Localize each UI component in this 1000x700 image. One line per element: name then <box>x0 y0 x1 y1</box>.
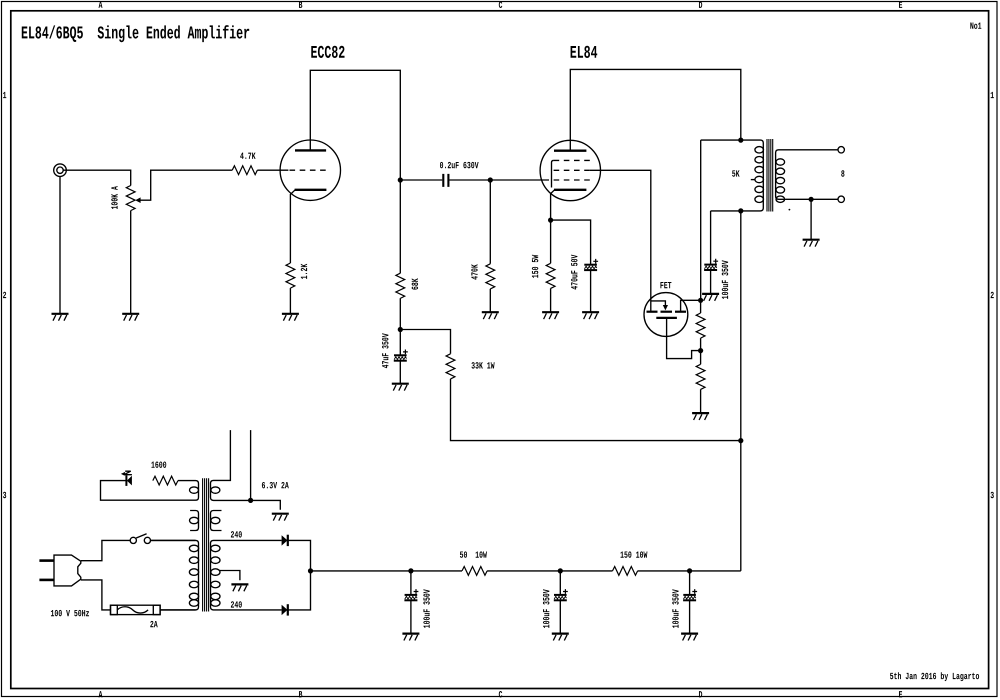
junction node filter cap 3 <box>687 568 692 573</box>
wire node to coupling cap <box>400 179 442 181</box>
junction node B+ and 33K feed <box>738 438 743 443</box>
output terminal bottom <box>838 196 844 202</box>
LED D3 triangle <box>127 476 132 486</box>
label 4.7K <box>240 153 255 159</box>
junction node primary bottom B+ <box>738 208 743 213</box>
mosfet Q1 FET envelope <box>644 293 688 337</box>
wire rail segment 3 <box>638 570 741 572</box>
T1 spare winding left loop <box>190 517 199 523</box>
frame column label B top <box>299 2 302 8</box>
T1 HV loop 2 <box>211 557 220 564</box>
wire rail segment 2 <box>487 570 612 572</box>
ground at C5 <box>402 634 419 641</box>
resistor R7 with wires <box>700 300 702 350</box>
T1 pilot loop <box>190 487 199 493</box>
T1 HV loop 1 <box>211 545 220 552</box>
ground at FET divider <box>692 413 709 420</box>
output transformer T2 primary outline <box>701 140 764 211</box>
T1 HV loop 5 <box>211 593 220 600</box>
T2 primary loop 3 <box>755 166 764 172</box>
rectifier diode D1 bar <box>287 535 289 546</box>
switch S1 contact left <box>130 537 136 543</box>
label 0.2uF 630V <box>440 162 479 168</box>
ground at C4 <box>702 294 719 301</box>
ground at input jack <box>52 314 69 321</box>
junction node FET source <box>698 298 703 303</box>
T2 primary loop 2 <box>755 157 764 163</box>
junction node EL84 grid <box>488 177 493 182</box>
label 68K <box>412 278 418 289</box>
frame column label E bottom <box>899 691 902 697</box>
frame column label D top <box>699 2 702 8</box>
T2 secondary loop 4 <box>776 187 785 193</box>
T1 spare winding right loop <box>211 517 220 523</box>
junction node filter cap 2 <box>558 568 563 573</box>
wire B+ vertical rail <box>740 211 742 571</box>
wire EL84 anode to transformer <box>570 69 741 150</box>
T2 primary phase mark <box>751 179 755 181</box>
wire switch to primary <box>151 539 196 541</box>
wire 4.7K to ECC82 grid <box>257 169 288 171</box>
label 1.2K <box>301 264 307 279</box>
title text <box>22 25 249 42</box>
FET source lead wire <box>681 300 701 311</box>
wire HV center tap <box>219 571 240 581</box>
label 50 10W <box>460 551 487 557</box>
T1 spare winding left outline <box>190 511 198 531</box>
power transformer T1 primary outline <box>150 540 199 610</box>
T1 primary loop 2 <box>189 557 198 564</box>
wire EL84 cathode lead <box>551 190 555 220</box>
label 1600 <box>151 461 166 467</box>
resistor R3 68K with wires <box>399 180 401 330</box>
pentode U2 EL84 envelope <box>540 140 600 200</box>
wire wiper to grid line <box>140 170 232 200</box>
ECC82 cathode bar <box>295 189 327 191</box>
label 100uF 350V at C5 <box>423 589 429 628</box>
ground at 470K <box>482 312 499 319</box>
label 100 V 50Hz <box>51 610 89 616</box>
T1 HV loop 3 <box>211 569 220 576</box>
fuse F1 end cap left <box>111 605 118 614</box>
label 470K <box>471 264 477 279</box>
T2 core lines <box>767 139 773 212</box>
label 100K A <box>111 186 117 209</box>
label 150 5W <box>532 255 538 278</box>
EL84 anode bar <box>554 149 586 151</box>
wire jack sleeve to ground <box>59 177 61 314</box>
T2 secondary loop 3 <box>776 177 785 183</box>
label 100uF 350V at C4 <box>722 260 728 299</box>
junction node rectifier output <box>308 568 313 573</box>
sheet number No1 <box>970 23 981 29</box>
fuse F1 end cap right <box>153 605 160 614</box>
wire 1.2K to ground <box>289 288 291 314</box>
T1 primary loop 5 <box>189 593 198 600</box>
fuse F1 2A body <box>111 605 161 614</box>
label 240 top <box>231 531 242 537</box>
ground at secondary <box>803 240 820 247</box>
ground at C6 <box>552 634 569 641</box>
capacitor C6 100uF 350V with wires <box>559 571 561 634</box>
junction node filter cap 1 <box>408 568 413 573</box>
junction node FET gate divider <box>698 348 703 353</box>
label EL84 <box>571 46 598 58</box>
T1 primary loop 4 <box>189 581 198 588</box>
label 100uF 350V at C7 <box>672 589 678 628</box>
EL84 g2 dashes <box>554 169 591 171</box>
T2 secondary outline <box>776 150 838 200</box>
ground at heater winding <box>272 514 289 521</box>
capacitor C3 470uF 50V with wires <box>551 220 591 312</box>
junction node cathode <box>548 218 553 223</box>
T1 pilot winding outline with LED loop <box>101 481 199 501</box>
T1 primary loop 6 <box>189 600 198 607</box>
label 8 <box>841 170 844 176</box>
wire ECC82 anode to coupling node <box>310 70 400 180</box>
resistor R4 470K with wires <box>489 180 491 312</box>
ground at 47uF <box>392 384 409 391</box>
AC plug prong bottom <box>39 579 54 582</box>
triode U1 ECC82 envelope <box>280 140 340 200</box>
wire heater riser <box>250 430 252 500</box>
wire fuse to primary <box>160 609 195 611</box>
FET gate lead wire <box>667 318 701 359</box>
label 5K <box>732 170 739 176</box>
wire plug to switch <box>81 540 130 560</box>
FET channel contact right <box>675 311 686 313</box>
resistor R2 1.2K <box>286 263 295 288</box>
rectifier diode D1 triangle <box>282 535 288 545</box>
T2 primary loop 4 <box>755 176 764 182</box>
date author text <box>890 672 979 681</box>
label 240 bottom <box>231 601 242 607</box>
resistor R11 150 10W <box>613 567 638 576</box>
label 150 10W <box>621 551 648 557</box>
junction node 68K bottom <box>398 327 403 332</box>
ground at pot <box>122 314 139 321</box>
frame row label 3 left <box>3 492 6 498</box>
switch S1 lever <box>136 534 146 538</box>
wire coupling cap to EL84 grid <box>449 179 549 181</box>
LED D3 emission arrows <box>124 471 132 475</box>
resistor R10 50 10W <box>462 567 487 576</box>
frame column label C bottom <box>499 691 502 697</box>
EL84 g1 dashes <box>554 179 591 181</box>
FET channel contact middle <box>661 311 673 313</box>
label ECC82 <box>311 46 344 58</box>
ECC82 grid dashes <box>290 169 327 171</box>
T1 HV secondary outline <box>211 540 282 610</box>
T2 primary loop 1 <box>755 147 764 153</box>
EL84 g3 dashes <box>554 159 591 161</box>
T2 secondary loop 5 <box>776 196 785 202</box>
wire rail segment 1 <box>311 570 463 572</box>
resistor R1 4.7K <box>232 166 257 175</box>
FET bulk branch wire <box>651 301 666 306</box>
junction node secondary ground <box>809 197 814 202</box>
wire B+ to FET node <box>700 140 702 300</box>
capacitor C5 100uF 350V with wires <box>410 571 412 634</box>
potentiometer VR1 100K A body <box>126 186 135 211</box>
AC plug prong top <box>39 559 54 562</box>
ground at 150 5W <box>542 312 559 319</box>
T2 secondary phase mark <box>789 209 791 211</box>
wire jack tip to pot top <box>63 170 131 185</box>
frame row label 1 right <box>991 92 994 98</box>
T1 HV loop 6 <box>211 600 220 607</box>
frame row label 3 right <box>991 492 994 498</box>
junction node anode RC <box>398 177 403 182</box>
resistor R5 33K 1W <box>446 354 455 379</box>
wire secondary to ground <box>810 199 812 239</box>
T1 heater winding outline <box>211 430 281 510</box>
capacitor C4 100uF 350V with wires <box>710 211 712 294</box>
ground at C7 <box>681 634 698 641</box>
T1 primary loop 3 <box>189 569 198 576</box>
wire diode cathodes join <box>288 540 311 610</box>
switch S1 contact right <box>144 537 150 543</box>
rectifier diode D2 bar <box>287 604 289 615</box>
T2 primary loop 5 <box>755 186 764 192</box>
output terminal top <box>838 147 844 153</box>
label 100uF 350V at C6 <box>543 589 549 628</box>
frame column label E top <box>899 2 902 8</box>
ground at 470uF <box>582 312 599 319</box>
label FET <box>660 282 671 288</box>
wire pot bottom to ground <box>130 211 132 314</box>
FET channel contact left <box>647 311 658 313</box>
frame row label 1 left <box>3 92 6 98</box>
FET gate bar <box>656 317 677 319</box>
label 47uF 350V <box>382 333 388 368</box>
T1 heater loop <box>211 487 220 493</box>
resistor R8 with wires <box>700 351 702 414</box>
frame row label 2 right <box>991 292 994 298</box>
input jack J1 <box>54 164 67 177</box>
capacitor C1 0.2uF 630V plates <box>443 174 448 187</box>
T2 secondary loop 2 <box>776 168 785 174</box>
frame column label A bottom <box>99 691 103 697</box>
T1 core lines <box>203 478 209 611</box>
frame column label B bottom <box>299 691 302 697</box>
T1 spare winding right outline <box>211 511 222 531</box>
T1 HV loop 4 <box>211 581 220 588</box>
fuse F1 wavy element <box>117 607 148 613</box>
capacitor C2 47uF 350V with wires <box>399 330 401 384</box>
FET bulk arrow <box>663 305 668 310</box>
frame column label A top <box>99 2 103 8</box>
potentiometer wiper arrow <box>135 197 140 203</box>
label 2A <box>150 621 157 627</box>
EL84 g3 to cathode tie <box>552 160 554 187</box>
AC plug body <box>54 555 81 586</box>
LED D3 cathode bar <box>125 475 127 486</box>
wire 33K to B+ rail <box>451 379 741 441</box>
resistor R6 150 5W with wires <box>550 220 552 312</box>
capacitor C7 100uF 350V with wires <box>689 571 691 634</box>
label 470uF 50V <box>571 255 577 290</box>
label 6.3V 2A <box>262 482 289 488</box>
ground at center tap <box>231 584 248 591</box>
ECC82 anode bar <box>295 149 326 151</box>
T2 secondary loop 1 <box>776 159 785 165</box>
wire plug to fuse <box>81 580 111 610</box>
frame row label 2 left <box>3 292 6 298</box>
ground at 1.2K <box>282 314 299 321</box>
label 33K 1W <box>471 362 494 368</box>
wire EL84 g2 to FET drain <box>590 170 651 311</box>
rectifier diode D2 triangle <box>282 605 288 615</box>
wire node to 33K <box>400 330 450 354</box>
junction node heater return <box>248 498 253 503</box>
frame column label C top <box>499 2 502 8</box>
frame column label D bottom <box>699 691 702 697</box>
T1 primary loop 1 <box>189 545 198 552</box>
wire ECC82 cathode lead <box>290 190 295 263</box>
resistor R9 1600 <box>153 476 178 485</box>
T2 primary loop 6 <box>755 196 764 202</box>
junction node anode primary top <box>738 138 743 143</box>
EL84 cathode bar <box>554 189 586 191</box>
